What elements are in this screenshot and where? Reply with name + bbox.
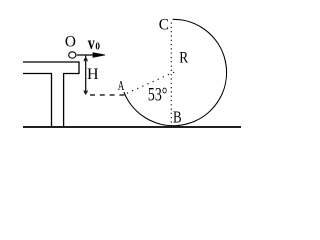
svg-text:A: A (118, 78, 125, 93)
svg-text:53°: 53° (148, 85, 167, 106)
svg-text:H: H (87, 66, 99, 83)
table underside right (63, 73, 80, 75)
svg-text:0: 0 (95, 41, 100, 53)
table leg right side (63, 74, 65, 127)
dotted radius CB vertical (170, 23, 172, 125)
svg-text:B: B (173, 108, 182, 127)
svg-text:O: O (65, 34, 76, 51)
ground (23, 126, 241, 128)
circular track arc (124, 19, 227, 125)
svg-text:C: C (159, 17, 169, 34)
dotted radius to A (127, 72, 175, 94)
v0 arrow (77, 54, 100, 56)
svg-text:R: R (179, 50, 188, 67)
table right edge (78, 62, 80, 74)
table underside left (23, 73, 52, 75)
ball at O (69, 52, 76, 58)
dashed landing line (90, 94, 125, 96)
table leg left side (51, 74, 53, 127)
table top surface (23, 61, 80, 63)
H dimension arrow (85, 56, 87, 95)
svg-text:v: v (88, 33, 95, 53)
